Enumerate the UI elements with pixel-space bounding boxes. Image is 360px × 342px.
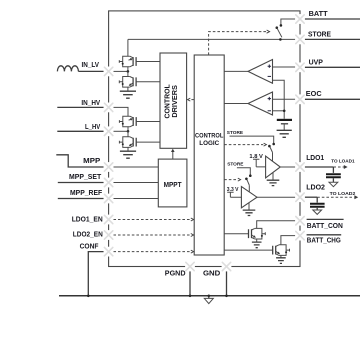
- wire LDO1 output: [280, 166, 295, 168]
- wire M5 drain to BATT_CON: [257, 221, 296, 229]
- block MPPT: [158, 159, 187, 207]
- wire U2 output to logic: [224, 103, 248, 105]
- wire UVP external: [305, 66, 360, 68]
- switch SW2 pivot: [268, 145, 271, 148]
- transistor M3 (PMOS, IN_HV): [123, 116, 130, 127]
- svg-text:LDO1: LDO1: [306, 153, 324, 162]
- wire MPP internal: [113, 166, 158, 168]
- capacitor C2 (LDO2 output): [316, 197, 318, 202]
- ground (C2): [313, 210, 322, 214]
- svg-text:LOGIC: LOGIC: [199, 140, 219, 147]
- wire U4 to ground: [248, 203, 250, 210]
- svg-text:MPP: MPP: [83, 156, 100, 165]
- node reference junction: [283, 110, 286, 113]
- wire logic to M5 gate: [224, 233, 248, 235]
- wire LDO1 external: [305, 166, 334, 168]
- wire U3 to ground: [272, 173, 274, 181]
- svg-text:MPP_REF: MPP_REF: [70, 188, 103, 197]
- switch SW1 blade: [277, 28, 282, 38]
- junction PGND-rail: [189, 295, 192, 298]
- battery BT1 (internal reference): [277, 119, 292, 121]
- comparator U2 (EOC): [248, 92, 273, 115]
- wire CONF external to ground rail: [88, 252, 103, 296]
- switch SW3 contact (STORE): [249, 174, 252, 177]
- wire STORE to LDO2 switch: [237, 168, 250, 175]
- wire GND drop: [226, 267, 228, 296]
- wire CONF dashed: [113, 251, 190, 253]
- pin BATT_CHG: [295, 231, 305, 241]
- pin STORE: [295, 35, 305, 45]
- svg-text:TO LOAD1: TO LOAD1: [331, 158, 355, 164]
- label BATT_CHG with overbar: [307, 234, 342, 236]
- node IN_LV junction: [127, 70, 130, 73]
- wire logic to drivers dashed arrow: [191, 99, 195, 101]
- wire SW3 to LDO2 amp: [248, 185, 250, 191]
- pin UVP: [295, 62, 305, 72]
- junction GND-rail: [225, 295, 228, 298]
- wire MPP_SET external: [58, 182, 104, 184]
- transistor M1 (boost PMOS, IN_LV): [123, 56, 130, 67]
- wire U1 output to logic: [224, 70, 248, 72]
- switch SW1 contact (STORE): [279, 38, 282, 41]
- svg-text:IN_HV: IN_HV: [81, 98, 100, 107]
- wire MPP_REF external: [58, 198, 104, 200]
- capacitor C1 (LDO1 output): [332, 167, 334, 173]
- wire MPP_REF internal: [113, 198, 158, 200]
- wire SW2 to LDO1 amp: [272, 152, 274, 161]
- wire M3 gate to drivers: [136, 121, 160, 123]
- pin MPP_SET: [104, 178, 114, 188]
- wire MPP external (stepped): [56, 155, 103, 167]
- ground (M6 source): [276, 258, 286, 264]
- wire U2 minus: [273, 110, 285, 112]
- switch SW1 pivot: [276, 26, 279, 29]
- wire M2 source to ground: [127, 87, 129, 91]
- junction CONF-rail: [87, 295, 90, 298]
- wire TO LOAD2 dashed arrow: [317, 196, 354, 198]
- wire M4 source to ground: [127, 147, 129, 151]
- pin CONF: [104, 247, 114, 257]
- wire UVP to U1 plus: [273, 66, 296, 68]
- transistor M2 (boost NMOS, IN_LV): [123, 77, 130, 88]
- op-amp U4 (LDO2 regulator): [241, 187, 257, 208]
- wire switch control dashed: [209, 32, 267, 55]
- svg-text:CONTROLDRIVERS: CONTROLDRIVERS: [163, 84, 179, 119]
- wire IN_HV external: [57, 106, 103, 108]
- wire LDO1_EN dashed: [113, 219, 190, 221]
- ground (U3): [267, 180, 280, 185]
- label BATT_CON with overbar: [307, 218, 344, 220]
- svg-text:LDO2: LDO2: [306, 183, 325, 192]
- wire LDO1 enable dashed: [224, 144, 263, 146]
- transistor M5 (BATT_CON NMOS): [255, 228, 262, 239]
- wire LDO2_EN dashed: [113, 234, 190, 236]
- block CONTROL LOGIC: [194, 55, 224, 255]
- svg-text:PGND: PGND: [165, 268, 186, 277]
- reference tap 3.3V: [227, 192, 241, 197]
- wire MPPT to drivers arrow: [172, 151, 174, 159]
- op-amp U3 (LDO1 regulator): [266, 156, 281, 178]
- pin BATT: [295, 14, 305, 24]
- svg-text:BATT_CON: BATT_CON: [307, 221, 343, 230]
- svg-text:GND: GND: [203, 268, 221, 277]
- comparator U1 (UVP): [248, 60, 273, 84]
- svg-text:UVP: UVP: [309, 57, 323, 66]
- wire BATT internal: [281, 19, 296, 25]
- wire EOC external: [305, 98, 360, 100]
- ground (M4 source): [120, 151, 136, 158]
- wire M3 source to node L_HV: [127, 127, 129, 132]
- ground (M2 source): [120, 91, 136, 98]
- pin LDO1: [295, 162, 305, 172]
- pin MPP: [104, 162, 114, 172]
- ground (C1): [329, 182, 338, 186]
- pin IN_HV: [104, 103, 114, 113]
- svg-text:STORE: STORE: [227, 130, 244, 136]
- svg-text:STORE: STORE: [227, 162, 244, 168]
- svg-text:CONF: CONF: [80, 241, 99, 250]
- wire L_HV external: [57, 130, 103, 132]
- wire M6 drain to BATT_CHG: [281, 236, 296, 245]
- svg-text:STORE: STORE: [308, 29, 331, 38]
- ground (earth symbol on rail): [208, 296, 210, 299]
- wire M2 gate to drivers: [136, 81, 160, 83]
- svg-text:BATT_CHG: BATT_CHG: [307, 236, 341, 245]
- wire IN_LV external: [78, 70, 103, 72]
- pin LDO2_EN: [104, 230, 114, 240]
- wire BATT external: [305, 18, 360, 20]
- wire PMOS M1 drain to STORE rail: [127, 39, 129, 56]
- svg-text:LDO1_EN: LDO1_EN: [72, 214, 103, 223]
- pin IN_LV: [104, 67, 114, 77]
- pin L_HV: [104, 126, 114, 136]
- wire EOC to U2 plus: [273, 98, 296, 100]
- pin BATT_CON: [295, 216, 305, 226]
- ground (M5 source): [252, 242, 262, 248]
- wire M1 source to node IN_LV: [127, 67, 129, 72]
- pin GND: [222, 262, 232, 272]
- ground (U4): [243, 210, 256, 215]
- wire STORE external: [305, 38, 360, 40]
- svg-text:MPPT: MPPT: [164, 182, 183, 189]
- switch SW1 contact (BATT): [280, 24, 283, 27]
- pin MPP_REF: [104, 194, 114, 204]
- svg-text:IN_LV: IN_LV: [82, 60, 100, 69]
- wire M5 source to ground: [256, 239, 258, 242]
- pin LDO2: [295, 192, 305, 202]
- inductor L1 (input coil): [57, 66, 78, 72]
- pin LDO1_EN: [104, 215, 114, 225]
- wire M4 gate to drivers: [136, 141, 160, 143]
- switch SW2 blade: [270, 147, 273, 153]
- transistor M4 (NMOS, L_HV): [123, 137, 130, 148]
- wire TO LOAD1 dashed arrow: [333, 166, 344, 168]
- wire PGND drop: [189, 267, 191, 296]
- wire IN_HV internal to M3 drain: [113, 107, 128, 116]
- ground (BT1): [277, 130, 292, 137]
- reference tap 1.8V: [253, 159, 266, 167]
- svg-text:BATT: BATT: [309, 9, 328, 18]
- wire LDO2 output: [257, 196, 295, 198]
- switch SW2 contact (STORE): [272, 143, 275, 146]
- wire M4 drain: [127, 131, 129, 137]
- svg-text:EOC: EOC: [306, 89, 322, 98]
- wire M6 source to ground: [280, 255, 282, 257]
- wire STORE internal rail: [128, 38, 296, 40]
- svg-text:TO LOAD2: TO LOAD2: [330, 191, 356, 197]
- switch SW3 blade: [247, 180, 249, 186]
- switch SW3 pivot: [245, 178, 248, 181]
- wire STORE to LDO1 switch: [230, 136, 274, 143]
- ground rail: [59, 295, 360, 297]
- wire U1 minus to reference: [273, 80, 285, 119]
- wire M1 gate to drivers: [136, 61, 160, 63]
- wire L_HV internal: [113, 130, 128, 132]
- pin EOC: [295, 94, 305, 104]
- svg-text:MPP_SET: MPP_SET: [69, 172, 102, 181]
- wire IN_LV internal: [113, 70, 128, 72]
- IC boundary (SPV1050): [109, 11, 300, 267]
- svg-text:CONTROL: CONTROL: [195, 133, 223, 140]
- wire LDO2 external: [305, 196, 318, 198]
- block CONTROL DRIVERS: [160, 53, 187, 148]
- wire M2 drain: [127, 71, 129, 76]
- pin PGND: [185, 262, 195, 272]
- node L_HV junction: [127, 130, 130, 133]
- wire MPP_SET internal: [113, 182, 158, 184]
- transistor M6 (BATT_CHG NMOS): [279, 245, 286, 256]
- svg-text:LDO2_EN: LDO2_EN: [73, 229, 103, 238]
- svg-text:L_HV: L_HV: [85, 122, 100, 131]
- wire LDO2 enable dashed: [224, 179, 237, 181]
- wire logic to M6 gate: [224, 249, 273, 251]
